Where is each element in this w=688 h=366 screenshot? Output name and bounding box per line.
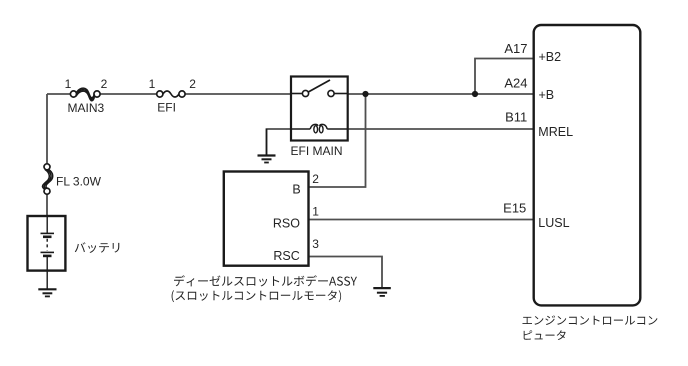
svg-text:EFI MAIN: EFI MAIN [291,144,343,158]
svg-text:EFI: EFI [157,101,176,115]
svg-text:B11: B11 [505,110,527,125]
svg-text:MAIN3: MAIN3 [68,101,105,115]
svg-text:A17: A17 [504,41,527,56]
svg-text:RSO: RSO [273,217,300,231]
svg-text:2: 2 [101,77,108,91]
svg-text:MREL: MREL [538,125,573,139]
svg-text:1: 1 [312,205,319,219]
svg-text:+B2: +B2 [539,50,562,64]
svg-text:3: 3 [312,237,319,251]
svg-text:E15: E15 [503,200,526,215]
svg-text:2: 2 [189,77,196,91]
svg-text:B: B [292,183,300,197]
svg-text:LUSL: LUSL [538,216,569,230]
svg-text:1: 1 [65,77,72,91]
svg-text:FL 3.0W: FL 3.0W [56,175,102,189]
svg-text:2: 2 [312,172,319,186]
svg-text:1: 1 [149,77,156,91]
svg-text:RSC: RSC [273,249,299,263]
svg-text:A24: A24 [504,76,527,91]
svg-text:+B: +B [539,88,555,102]
